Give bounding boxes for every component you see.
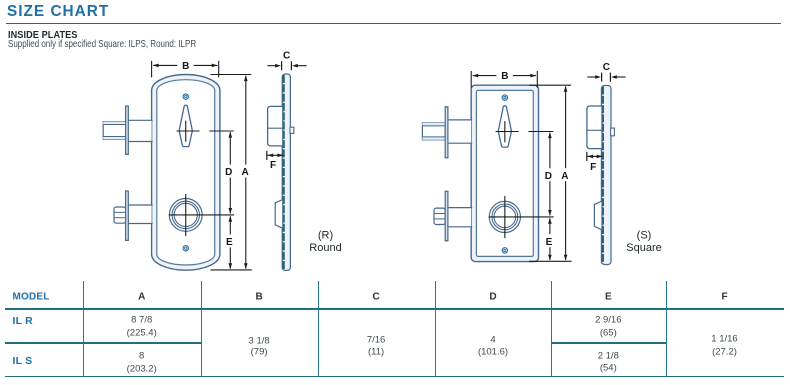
svg-text:E: E [546, 237, 553, 248]
table header underline [5, 308, 784, 309]
cylinder hole (square plate) [489, 196, 554, 238]
dimension F (square side) [587, 152, 603, 173]
svg-text:A: A [241, 167, 248, 178]
table values column D [490, 335, 495, 346]
dimension C (round side) [267, 51, 306, 71]
table values column C [367, 335, 386, 346]
bottom screw (square plate) [502, 248, 507, 253]
dimension D (square) [545, 132, 552, 216]
top screw (round plate) [183, 94, 188, 99]
svg-text:D: D [225, 167, 232, 178]
section heading [8, 29, 77, 41]
table row IL R [13, 315, 33, 327]
svg-text:F: F [590, 162, 596, 173]
dimension B (square) [471, 71, 537, 88]
label (R) Round [309, 230, 341, 255]
svg-text:(R): (R) [318, 230, 333, 242]
svg-text:A: A [561, 171, 568, 182]
dimension F (round side) [267, 151, 283, 172]
dimension C (square side) [587, 62, 625, 81]
dimension E (square) [546, 218, 553, 261]
subtitle [8, 39, 196, 50]
table row IL S [13, 355, 33, 367]
dimension A (round) [210, 75, 251, 270]
cylinder tailpiece (square, left) [434, 191, 472, 241]
top screw (square plate) [502, 95, 507, 100]
table values column F [711, 334, 737, 345]
svg-text:D: D [545, 171, 552, 182]
dimension A (square) [529, 85, 572, 261]
cylinder hole (round plate) [169, 194, 234, 236]
svg-text:C: C [603, 62, 610, 73]
cylinder tailpiece (round, left) [114, 191, 153, 240]
svg-text:C: C [283, 51, 290, 62]
dimension E (round) [226, 216, 233, 269]
round plate front view [152, 75, 220, 271]
table bottom border [5, 376, 784, 378]
table values column B [249, 335, 270, 346]
svg-text:B: B [501, 71, 508, 82]
thumbturn boss (side view, square) [587, 106, 602, 149]
square plate side view [601, 86, 611, 265]
thumbturn (round plate) [177, 105, 234, 146]
page title [7, 3, 109, 21]
svg-text:(S): (S) [637, 230, 652, 242]
thumbturn boss (side view, round) [268, 106, 283, 145]
svg-text:Round: Round [309, 242, 341, 254]
title rule [6, 23, 781, 24]
svg-text:F: F [270, 160, 276, 171]
thumbturn (square plate) [496, 106, 554, 147]
cylinder boss (side view, round) [275, 200, 283, 229]
mounting tab (side view, square) [611, 128, 615, 136]
thumbturn spindle (square, left) [422, 107, 472, 158]
table values column A [131, 314, 152, 325]
thumbturn spindle (round, left) [103, 106, 152, 154]
svg-text:Square: Square [626, 242, 661, 254]
round plate side view [282, 74, 290, 270]
table header row [13, 292, 50, 303]
dimension B (round) [152, 61, 219, 78]
dimension D (round) [225, 132, 232, 214]
table values column E [595, 315, 621, 326]
table row divider (MODEL/A) [5, 342, 201, 343]
bottom screw (round plate) [183, 246, 188, 251]
table column separators [83, 281, 84, 376]
label (S) Square [626, 230, 661, 255]
square plate front view [471, 85, 538, 261]
svg-text:E: E [226, 237, 233, 248]
table row divider (E column) [551, 342, 666, 343]
svg-text:B: B [182, 61, 189, 72]
cylinder boss (side view, square) [594, 201, 602, 230]
mounting tab (side view, round) [290, 127, 294, 133]
